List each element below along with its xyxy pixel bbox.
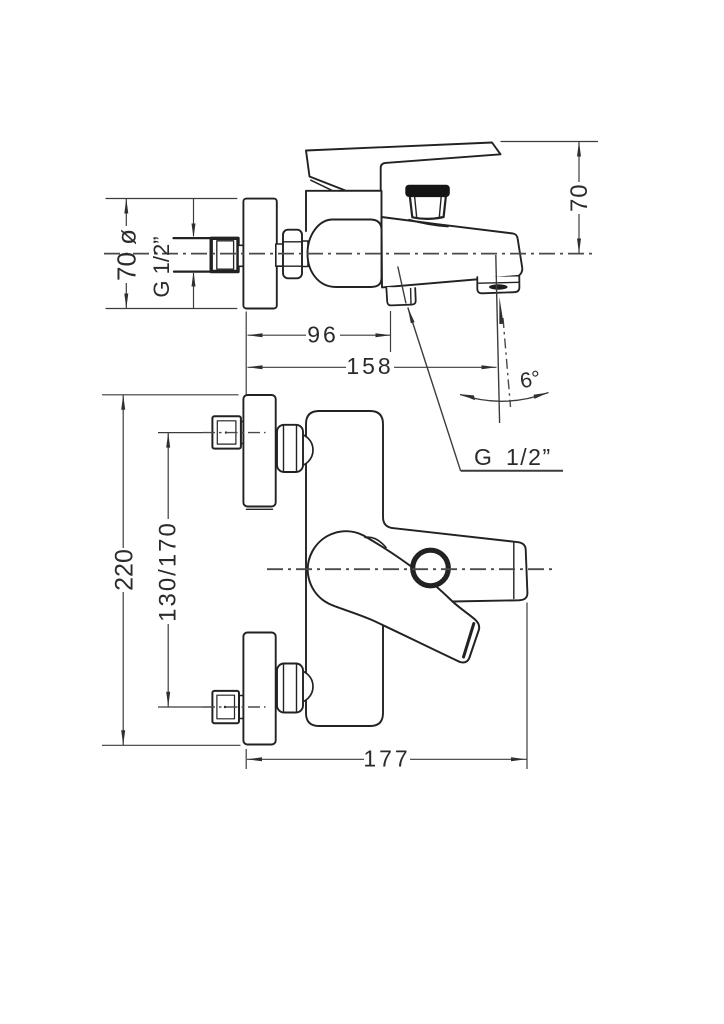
centerline bottom connector xyxy=(203,706,266,708)
union spigot tab xyxy=(238,245,244,266)
svg-text:96: 96 xyxy=(307,322,339,348)
wall face extension line xyxy=(245,312,247,396)
spout (front) xyxy=(384,528,527,604)
dim 70 right extension xyxy=(501,141,599,143)
wall plate top rim line xyxy=(247,508,273,510)
hex nut bottom (front) xyxy=(277,664,303,713)
dim 177 line xyxy=(247,758,527,760)
arrows dim 158 xyxy=(248,365,263,369)
svg-text:G 1/2”: G 1/2” xyxy=(149,236,174,297)
tilted aerator axis dash-dot xyxy=(503,318,511,407)
diverter knob cap (dark) xyxy=(406,185,450,196)
leader arrow at aerator xyxy=(499,297,503,324)
leader line to G1/2 label xyxy=(408,308,461,471)
diverter knob body xyxy=(410,196,446,219)
svg-text:158: 158 xyxy=(346,353,393,379)
centerline top view xyxy=(104,253,592,255)
centerline bottom view xyxy=(267,568,557,570)
svg-text:70 ø: 70 ø xyxy=(112,229,142,281)
dim 177 right extension xyxy=(526,603,528,770)
svg-text:1/2”: 1/2” xyxy=(506,444,552,470)
faucet body (front) xyxy=(306,411,383,726)
arrows dim 96 xyxy=(248,333,263,337)
svg-text:220: 220 xyxy=(111,549,139,591)
hex nut top (front) xyxy=(277,425,303,472)
svg-text:70: 70 xyxy=(566,183,593,212)
inlet boss top xyxy=(280,434,313,467)
wall union pipe G1/2 tail xyxy=(174,238,213,272)
inlet boss bottom xyxy=(280,670,313,703)
shower outlet tab under spout xyxy=(386,287,415,305)
lever tip end face xyxy=(464,624,474,658)
dim 70 right line xyxy=(578,142,580,183)
dim 130/170 extension top xyxy=(158,432,203,434)
dim 96 line xyxy=(248,334,391,336)
eccentric connector top xyxy=(212,416,243,448)
arrows dim 70ø xyxy=(124,199,128,214)
centerline top connector xyxy=(203,432,266,434)
6 degree arc xyxy=(460,393,549,402)
hex nut (side view) xyxy=(283,230,302,279)
connector hex nut to body xyxy=(302,241,309,267)
arrows dim 70 right xyxy=(577,142,581,157)
wall plate top (front) xyxy=(243,395,275,507)
dim 70ø line xyxy=(125,199,127,227)
dim 70ø extension lines xyxy=(106,198,238,200)
shower outlet axis line xyxy=(398,267,406,304)
connector plate to hex nut xyxy=(276,244,283,266)
aerator axis solid line xyxy=(496,255,500,423)
dim 130/170 extension bottom xyxy=(158,706,203,708)
spout (side view) xyxy=(382,217,523,287)
arrows dim 220 xyxy=(121,395,125,410)
aerator tab under spout xyxy=(477,277,519,294)
arrows 6 degree arc xyxy=(461,394,476,400)
indicator ring on lever xyxy=(413,550,449,586)
wall plate bottom (front) xyxy=(243,633,275,745)
dim 96 extension at shower outlet xyxy=(390,311,392,352)
dim 130/170 line xyxy=(167,433,169,519)
arrows dim 130/170 xyxy=(166,433,170,448)
svg-text:177: 177 xyxy=(363,746,410,772)
label 177 xyxy=(363,746,410,772)
lever handle (side view) xyxy=(306,143,501,191)
dim 177 left extension tick xyxy=(245,749,247,769)
cartridge capsule (side view) xyxy=(308,220,382,288)
arrows dim 177 xyxy=(247,757,262,761)
body escutcheon block xyxy=(306,191,382,231)
lever handle (front) xyxy=(308,531,479,662)
wall union nut body xyxy=(211,238,238,271)
svg-text:G: G xyxy=(474,444,492,470)
label 158 xyxy=(346,353,394,379)
svg-text:6°: 6° xyxy=(518,366,542,393)
svg-text:130/170: 130/170 xyxy=(155,521,182,622)
leader arrow at shower tab xyxy=(408,308,415,324)
G1/2 label underline xyxy=(461,470,563,472)
lever base dome arc xyxy=(365,537,386,547)
diverter knob skirt xyxy=(409,220,448,227)
label 96 xyxy=(306,322,340,348)
dim G1/2 left arrows line xyxy=(193,199,195,237)
wall plate escutcheon (side view) xyxy=(243,199,276,309)
dim 220 extension lines xyxy=(102,394,239,396)
arrows dim G1/2 left xyxy=(192,224,196,239)
dim 158 line xyxy=(248,366,497,368)
eccentric connector bottom xyxy=(212,691,243,723)
dim 220 line xyxy=(122,395,124,548)
